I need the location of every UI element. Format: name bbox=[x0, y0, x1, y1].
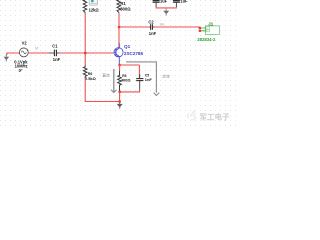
capacitor C2 bbox=[150, 24, 155, 30]
wire collector stub (red above circle) bbox=[118, 42, 120, 44]
AC source V2 bbox=[19, 48, 28, 57]
node R3 bottom junction bbox=[119, 91, 121, 93]
watermark logo bbox=[188, 111, 196, 120]
node junction at base wire bbox=[84, 52, 86, 54]
node collector junction bbox=[118, 26, 120, 28]
node rail junction bbox=[119, 100, 121, 102]
probe arrow DC bbox=[111, 69, 116, 93]
wire C5 bottom to R3 bottom bbox=[120, 90, 140, 92]
svg-text:0°: 0° bbox=[19, 68, 23, 73]
svg-text:1uF: 1uF bbox=[160, 0, 168, 4]
capacitor C5 bbox=[136, 65, 143, 90]
probe arrow AC bbox=[126, 62, 159, 96]
ground (bottom, at emitter rail) bbox=[117, 103, 123, 109]
12k resistor icon bbox=[89, 0, 97, 5]
resistor R1 (top, cut) bbox=[117, 0, 121, 13]
svg-text:交流: 交流 bbox=[162, 74, 170, 79]
svg-text:1nF: 1nF bbox=[145, 77, 153, 82]
svg-text:12kΩ: 12kΩ bbox=[89, 8, 100, 13]
svg-text:军工电子: 军工电子 bbox=[200, 111, 230, 121]
svg-text:C2: C2 bbox=[148, 20, 154, 25]
resistor R6 bbox=[83, 65, 87, 78]
svg-text:直流: 直流 bbox=[102, 72, 110, 77]
svg-text:1nF: 1nF bbox=[149, 31, 157, 36]
svg-text:400Ω: 400Ω bbox=[121, 78, 131, 83]
capacitor C1 bbox=[49, 50, 60, 57]
ground (top middle) bbox=[163, 8, 169, 16]
svg-text:282834-2: 282834-2 bbox=[197, 37, 216, 42]
wire 12k down to input junction and on to R6 bbox=[84, 13, 86, 65]
svg-text:Q1: Q1 bbox=[124, 44, 131, 49]
wire joining top capacitors bbox=[156, 6, 176, 9]
svg-text:1uF: 1uF bbox=[180, 0, 188, 4]
wire C2 to J1 bbox=[155, 26, 200, 29]
svg-text:J1: J1 bbox=[208, 21, 213, 26]
wire emitter node down to R3 bbox=[119, 65, 121, 71]
capacitor (top cut, right of pair) bbox=[173, 1, 180, 8]
svg-text:2SC2786: 2SC2786 bbox=[124, 51, 144, 56]
svg-text:Vo: Vo bbox=[160, 23, 164, 27]
wire collector junction to C2 bbox=[119, 26, 150, 28]
transistor Q1 2SC2786 bbox=[114, 43, 124, 64]
resistor R3 bbox=[118, 71, 122, 91]
capacitor (top cut, left of pair) bbox=[153, 1, 160, 8]
wire R1 to collector bbox=[118, 13, 120, 47]
wire R6 down, corner, bottom rail to emitter node bbox=[85, 78, 119, 101]
svg-text:800Ω: 800Ω bbox=[120, 6, 131, 11]
connector J1 282834-2 bbox=[199, 26, 220, 35]
svg-text:Vi: Vi bbox=[35, 47, 38, 51]
svg-text:1nF: 1nF bbox=[53, 57, 61, 62]
wire C1 to base (through junction) bbox=[60, 52, 114, 54]
wire emitter node to C5 branch (top of loop) bbox=[120, 64, 140, 66]
ground (left, at V2) bbox=[4, 54, 10, 61]
svg-text:R1: R1 bbox=[120, 1, 126, 6]
node emitter junction bbox=[118, 64, 120, 66]
wire V2 left lead to ground corner bbox=[7, 53, 20, 55]
svg-text:C1: C1 bbox=[52, 44, 58, 49]
resistor 12k (top-left branch, cut at top) bbox=[83, 0, 87, 13]
svg-text:2.5kΩ: 2.5kΩ bbox=[85, 76, 96, 81]
svg-text:V2: V2 bbox=[22, 41, 28, 46]
wire R3 bottom node down to rail bbox=[119, 92, 121, 102]
wire V2 to C1 bbox=[28, 52, 49, 54]
